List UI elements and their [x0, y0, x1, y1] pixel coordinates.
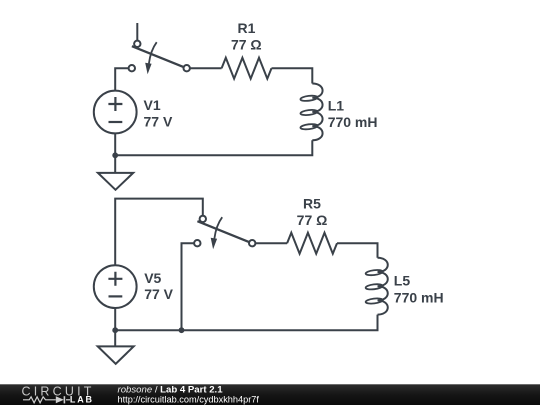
V5 plus sign [108, 272, 122, 286]
wire L1 bottom to corner [115, 140, 312, 155]
switch SW5 arrowhead [211, 238, 217, 249]
svg-text:V1: V1 [144, 97, 161, 113]
V1 minus sign [109, 121, 123, 123]
CircuitLab logo diode triangle [56, 396, 64, 403]
svg-text:LAB: LAB [70, 395, 94, 405]
V1 plus sign [108, 97, 122, 111]
switch SW5 blade [197, 221, 248, 242]
svg-text:L5: L5 [394, 273, 411, 289]
inductor L5 loop ellipse 2 [365, 283, 382, 290]
switch SW1 blade [132, 46, 183, 67]
switch SW5 right terminal [249, 240, 255, 246]
svg-text:77 Ω: 77 Ω [231, 37, 262, 53]
switch SW1 left terminal [129, 65, 135, 71]
switch SW1 arrowhead [145, 63, 151, 74]
ground GND2 [98, 346, 134, 364]
svg-text:770 mH: 770 mH [394, 290, 444, 306]
inductor L5 coil bumps [378, 258, 388, 315]
inductor L1 loop ellipse 3 [300, 123, 317, 130]
switch SW5 top terminal [200, 216, 206, 222]
switch SW1 top stub wire [136, 23, 138, 40]
footer bar [0, 384, 540, 405]
switch SW5 actuation arrow arc [214, 217, 222, 238]
switch SW5 left terminal [194, 240, 200, 246]
wire L5 bottom to bottom rail [115, 315, 377, 331]
svg-text:77 V: 77 V [144, 114, 173, 130]
svg-text:R1: R1 [238, 20, 256, 36]
svg-text:77 V: 77 V [144, 286, 173, 302]
svg-text:77 Ω: 77 Ω [297, 212, 328, 228]
switch SW1 right terminal [184, 65, 190, 71]
switch SW1 actuation arrow arc [149, 42, 157, 63]
svg-text:770 mH: 770 mH [328, 114, 378, 130]
inductor L5 loop ellipse 1 [365, 269, 382, 276]
inductor L1 coil bumps [312, 84, 322, 141]
wire V1 bottom to ground stem [114, 133, 116, 173]
wire SW5 left terminal down to bottom rail [182, 243, 195, 330]
V5 minus sign [109, 295, 123, 297]
svg-text:V5: V5 [144, 270, 161, 286]
resistor R5 [287, 233, 337, 254]
ground GND1 [98, 173, 133, 190]
wire SW5 right terminal to R5 [255, 242, 287, 244]
voltage source V1 body [94, 91, 137, 134]
wire switch SW1 left terminal to corner [115, 68, 128, 90]
inductor L1 loop ellipse 2 [300, 109, 317, 116]
wire SW1 right terminal to R1 [190, 67, 222, 69]
svg-text:R5: R5 [303, 196, 321, 212]
switch SW1 top terminal [134, 41, 140, 47]
svg-text:L1: L1 [328, 98, 345, 114]
wire R1 to top-right corner [272, 68, 313, 83]
voltage source V5 body [94, 265, 137, 308]
wire V5 top up and right to SW5 [115, 199, 203, 266]
node junction dot SW5 branch [179, 327, 185, 333]
svg-text:http://circuitlab.com/cydbxkhh: http://circuitlab.com/cydbxkhh4pr7f [118, 395, 260, 405]
inductor L1 loop ellipse 1 [300, 95, 317, 102]
wire R5 to corner [337, 243, 378, 258]
CircuitLab logo resistor-diode glyph [23, 396, 70, 403]
node junction dot under V5 [112, 327, 118, 333]
resistor R1 [222, 58, 272, 79]
wire V5 bottom to ground stem [114, 308, 116, 346]
node junction dot circuit1 [112, 152, 118, 158]
inductor L5 loop ellipse 3 [365, 298, 382, 305]
